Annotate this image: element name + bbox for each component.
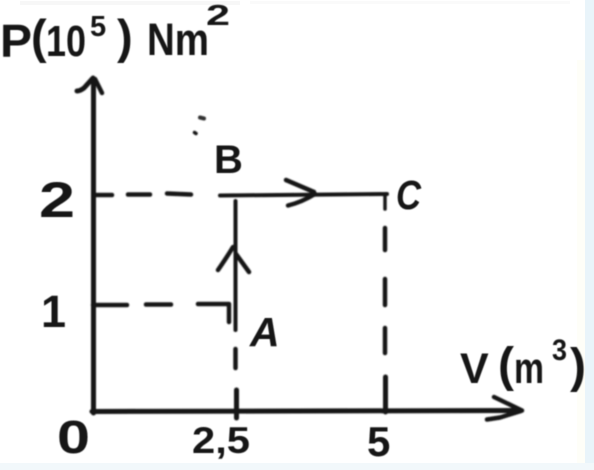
svg-text:2,5: 2,5 xyxy=(192,420,250,461)
svg-text:10: 10 xyxy=(46,17,86,66)
svg-text:V: V xyxy=(460,345,489,393)
svg-text:5: 5 xyxy=(90,11,106,43)
svg-text:C: C xyxy=(396,172,422,218)
svg-text:B: B xyxy=(214,138,243,182)
svg-text:(: ( xyxy=(31,10,47,63)
svg-text:5: 5 xyxy=(367,418,390,465)
svg-text:2: 2 xyxy=(39,172,75,228)
svg-text:1: 1 xyxy=(41,286,66,337)
svg-text:(: ( xyxy=(498,339,514,392)
svg-text:A: A xyxy=(249,309,280,355)
svg-text:0: 0 xyxy=(57,411,90,463)
svg-text:): ) xyxy=(117,10,133,63)
svg-text:Nm: Nm xyxy=(147,14,209,65)
svg-text:2: 2 xyxy=(206,0,230,32)
svg-text:m: m xyxy=(514,344,544,393)
svg-text:): ) xyxy=(570,340,586,393)
svg-text:3: 3 xyxy=(552,334,567,367)
svg-text:P: P xyxy=(0,15,32,67)
